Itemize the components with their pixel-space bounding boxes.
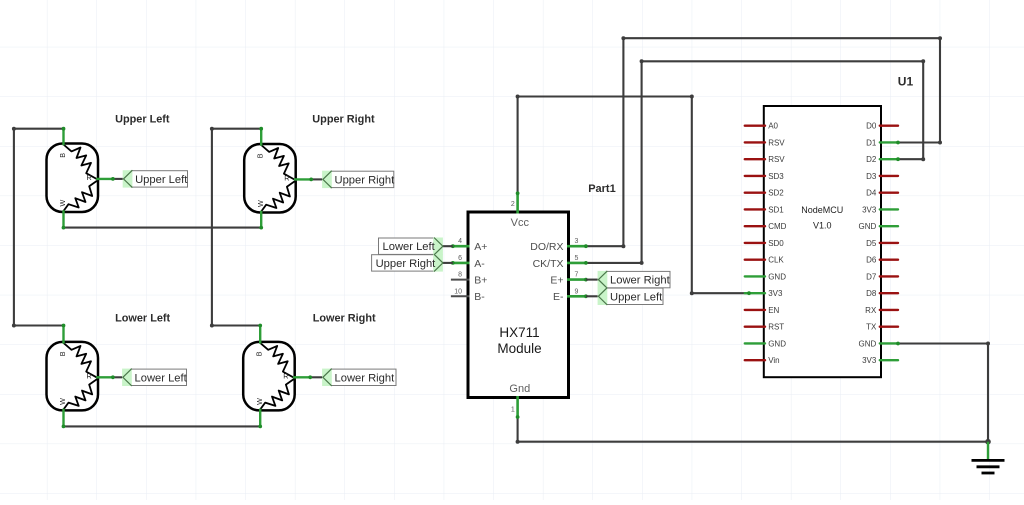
NodeMCU left pin RST xyxy=(745,323,785,332)
svg-text:D5: D5 xyxy=(866,239,877,248)
svg-text:D0: D0 xyxy=(866,122,877,131)
pin R of Lower Left xyxy=(87,372,115,381)
HX711 pin 7 E+ xyxy=(550,272,586,287)
load cell Lower Left body xyxy=(47,342,99,411)
bend dot wire1 top-right xyxy=(938,36,942,40)
HX711 pin 9 E- xyxy=(553,288,586,303)
svg-text:D8: D8 xyxy=(866,289,877,298)
NodeMCU right pin D8 xyxy=(866,289,898,298)
HX711 pin 2 Vcc xyxy=(511,193,530,229)
pin B of Lower Left xyxy=(58,326,67,356)
wire HX711 CK/TX to NodeMCU D2 xyxy=(586,61,923,263)
svg-text:Module: Module xyxy=(497,341,541,356)
svg-text:A+: A+ xyxy=(474,241,487,253)
HX711 pin 3 DO/RX xyxy=(530,238,586,253)
NodeMCU left pin SD2 xyxy=(745,189,785,198)
svg-text:NodeMCU: NodeMCU xyxy=(801,205,843,215)
NodeMCU right pin GND xyxy=(859,222,898,231)
svg-text:D6: D6 xyxy=(866,256,877,265)
green terminal dots xyxy=(62,127,314,429)
HX711 module Part1 body xyxy=(468,212,569,398)
HX711 pin 10 B- xyxy=(451,288,485,303)
svg-text:Upper Right: Upper Right xyxy=(312,114,375,126)
svg-text:R: R xyxy=(283,372,288,381)
svg-text:Gnd: Gnd xyxy=(509,383,530,395)
green terminal dots NodeMCU xyxy=(747,141,900,346)
bend dot Vcc wire top-left xyxy=(516,95,520,99)
NodeMCU left pin CMD xyxy=(745,222,787,231)
wire UL-R to flag xyxy=(113,178,124,180)
svg-text:RST: RST xyxy=(768,323,784,332)
svg-text:Upper Right: Upper Right xyxy=(376,258,437,270)
svg-text:GND: GND xyxy=(859,222,877,231)
svg-text:RSV: RSV xyxy=(768,155,785,164)
pin W of Lower Left xyxy=(58,398,67,426)
svg-text:7: 7 xyxy=(575,272,579,279)
junction bend UL-B corner xyxy=(12,127,16,131)
NodeMCU right pin RX xyxy=(865,306,898,315)
svg-text:B-: B- xyxy=(474,291,485,303)
svg-text:CLK: CLK xyxy=(768,256,784,265)
junction node ground xyxy=(985,439,991,445)
net label flag Lower Right xyxy=(598,271,671,288)
load cell Lower Right body xyxy=(243,342,295,411)
pin B of Upper Right xyxy=(256,129,265,159)
junction bend UR-B corner xyxy=(210,127,214,131)
NodeMCU left pin CLK xyxy=(745,256,785,265)
svg-text:V1.0: V1.0 xyxy=(813,220,832,230)
NodeMCU right pin D0 xyxy=(866,122,898,131)
wire A- flag stub xyxy=(443,262,453,264)
svg-text:SD2: SD2 xyxy=(768,189,784,198)
pin R of Lower Right xyxy=(283,372,311,381)
wire UR-R to flag xyxy=(311,178,323,180)
svg-text:Lower Left: Lower Left xyxy=(383,241,436,253)
bend dot Vcc wire top-right xyxy=(690,95,694,99)
svg-text:Lower Left: Lower Left xyxy=(115,313,170,325)
junction bend LR-B corner xyxy=(210,324,214,328)
svg-text:4: 4 xyxy=(458,238,462,245)
wire UL-B to LL-B xyxy=(14,129,64,326)
wire A+ flag stub xyxy=(443,245,453,247)
bend dot CK/TX junction xyxy=(640,261,644,265)
NodeMCU left pin SD1 xyxy=(745,205,785,214)
svg-text:Lower Right: Lower Right xyxy=(610,275,671,287)
pin W of Upper Left xyxy=(58,200,67,228)
svg-text:A0: A0 xyxy=(768,122,778,131)
svg-text:Part1: Part1 xyxy=(588,183,616,195)
svg-text:E-: E- xyxy=(553,291,564,303)
NodeMCU left pin SD0 xyxy=(745,239,785,248)
svg-text:B: B xyxy=(256,153,265,158)
NodeMCU right pin D3 xyxy=(866,172,898,181)
NodeMCU right pin D2 xyxy=(866,155,898,164)
NodeMCU left pin RSV xyxy=(745,155,786,164)
svg-text:GND: GND xyxy=(768,272,786,281)
HX711 pin 5 CK/TX xyxy=(533,255,586,270)
ground symbol xyxy=(972,442,1005,473)
NodeMCU right pin D5 xyxy=(866,239,898,248)
title Upper Left xyxy=(115,114,170,126)
bend dot DO/RX junction xyxy=(621,244,625,248)
green terminal dots HX711 xyxy=(451,191,588,418)
svg-text:RX: RX xyxy=(865,306,877,315)
svg-text:HX711: HX711 xyxy=(499,325,539,340)
NodeMCU left pin A0 xyxy=(745,122,779,131)
NodeMCU right pin D4 xyxy=(866,189,898,198)
svg-text:3V3: 3V3 xyxy=(862,356,877,365)
pin B of Lower Right xyxy=(255,326,264,356)
svg-text:W: W xyxy=(255,398,264,405)
NodeMCU left pin Vin xyxy=(745,356,780,365)
pin R of Upper Right xyxy=(284,174,312,183)
NodeMCU left pin RSV xyxy=(745,138,786,147)
svg-text:TX: TX xyxy=(866,323,877,332)
svg-text:SD3: SD3 xyxy=(768,172,784,181)
net label flag Upper Left xyxy=(123,170,189,187)
svg-text:A-: A- xyxy=(474,258,485,270)
svg-text:EN: EN xyxy=(768,306,779,315)
bend dot wire1 top-left xyxy=(621,36,625,40)
wire LL-R to flag xyxy=(113,376,123,378)
svg-text:D4: D4 xyxy=(866,189,877,198)
title Lower Right xyxy=(313,313,376,325)
svg-text:D7: D7 xyxy=(866,272,877,281)
bend dot Gnd corner xyxy=(516,440,520,444)
svg-text:Lower Right: Lower Right xyxy=(335,372,396,384)
NodeMCU right pin D7 xyxy=(866,272,898,281)
NodeMCU U1 body xyxy=(764,106,881,377)
svg-text:Lower Left: Lower Left xyxy=(135,372,188,384)
wire NodeMCU GND to ground xyxy=(898,344,988,442)
load cell Upper Left body xyxy=(47,144,99,213)
svg-text:Upper Left: Upper Left xyxy=(610,291,663,303)
title Part1 xyxy=(588,183,616,195)
svg-text:Vin: Vin xyxy=(768,356,779,365)
wire E+ flag stub xyxy=(586,279,599,281)
wire LR-R to flag xyxy=(310,376,323,378)
svg-text:3V3: 3V3 xyxy=(768,289,783,298)
svg-text:GND: GND xyxy=(768,339,786,348)
svg-text:B: B xyxy=(58,153,67,158)
bend dot wire2 top-right xyxy=(921,59,925,63)
net label flag Lower Left xyxy=(122,369,188,386)
svg-text:6: 6 xyxy=(458,255,462,262)
title U1 xyxy=(898,74,914,88)
svg-text:D3: D3 xyxy=(866,172,877,181)
wire HX711 Vcc to NodeMCU 3V3 xyxy=(518,97,749,294)
NodeMCU left pin GND xyxy=(745,272,786,281)
svg-text:W: W xyxy=(256,200,265,207)
title Upper Right xyxy=(312,114,375,126)
svg-text:Upper Right: Upper Right xyxy=(335,174,396,186)
pin B of Upper Left xyxy=(58,128,67,158)
NodeMCU right pin 3V3 xyxy=(862,205,898,214)
wire HX711 DO/RX to NodeMCU D1 xyxy=(586,38,940,246)
wire LL-W to LR-W xyxy=(64,425,261,427)
bend dot Vcc wire bottom xyxy=(690,291,694,295)
svg-text:B: B xyxy=(58,351,67,356)
svg-text:Upper Left: Upper Left xyxy=(135,174,188,186)
svg-text:U1: U1 xyxy=(898,74,914,88)
svg-text:9: 9 xyxy=(575,288,579,295)
svg-text:10: 10 xyxy=(454,288,462,295)
svg-text:Lower Right: Lower Right xyxy=(313,313,376,325)
svg-text:R: R xyxy=(87,372,92,381)
wire UR-B to LR-B xyxy=(212,129,261,326)
NodeMCU left pin GND xyxy=(745,339,786,348)
NodeMCU left pin EN xyxy=(745,306,780,315)
svg-text:CK/TX: CK/TX xyxy=(533,258,564,270)
wire HX711 Gnd to ground xyxy=(518,417,988,442)
net label flag Upper Left xyxy=(598,288,664,305)
wire E- flag stub xyxy=(586,295,599,297)
svg-text:B: B xyxy=(255,351,264,356)
HX711 pin 4 A+ xyxy=(451,238,488,253)
wire UL-W to UR-W xyxy=(64,227,262,229)
svg-text:B+: B+ xyxy=(474,275,487,287)
net label flag Lower Right xyxy=(322,369,396,386)
NodeMCU right pin TX xyxy=(866,323,898,332)
pin R of Upper Left xyxy=(87,173,115,182)
NodeMCU right pin D6 xyxy=(866,256,898,265)
svg-text:RSV: RSV xyxy=(768,138,785,147)
svg-text:SD0: SD0 xyxy=(768,239,784,248)
svg-text:W: W xyxy=(58,200,67,207)
svg-text:GND: GND xyxy=(859,339,877,348)
NodeMCU left pin SD3 xyxy=(745,172,785,181)
load cell Upper Right body xyxy=(244,144,296,213)
svg-text:2: 2 xyxy=(511,201,515,208)
NodeMCU right pin D1 xyxy=(866,138,898,147)
pin W of Upper Right xyxy=(256,200,265,228)
bend dot NodeMCU GND corner xyxy=(986,342,990,346)
svg-text:Upper Left: Upper Left xyxy=(115,114,170,126)
bend dot wire2 at D2 xyxy=(921,157,925,161)
svg-text:Vcc: Vcc xyxy=(511,217,530,229)
NodeMCU left pin 3V3 xyxy=(745,289,783,298)
net label flag Upper Right xyxy=(372,254,443,271)
svg-text:3V3: 3V3 xyxy=(862,205,877,214)
bend dot wire1 at D1 xyxy=(938,141,942,145)
NodeMCU right pin GND xyxy=(859,339,898,348)
HX711 pin 1 Gnd xyxy=(509,383,530,417)
net label flag Lower Left xyxy=(379,238,443,255)
svg-text:D1: D1 xyxy=(866,138,877,147)
net label flag Upper Right xyxy=(322,171,395,188)
HX711 pin 8 B+ xyxy=(451,272,488,287)
svg-text:CMD: CMD xyxy=(768,222,786,231)
svg-text:E+: E+ xyxy=(550,275,563,287)
junction bend LL-B corner xyxy=(12,324,16,328)
svg-text:DO/RX: DO/RX xyxy=(530,241,563,253)
svg-text:R: R xyxy=(284,174,289,183)
NodeMCU right pin 3V3 xyxy=(862,356,898,365)
svg-text:D2: D2 xyxy=(866,155,877,164)
HX711 pin 6 A- xyxy=(451,255,485,270)
pin W of Lower Right xyxy=(255,398,264,426)
svg-text:1: 1 xyxy=(511,407,515,414)
bend dot wire2 top-left xyxy=(640,59,644,63)
svg-text:SD1: SD1 xyxy=(768,205,784,214)
svg-text:W: W xyxy=(58,398,67,405)
title Lower Left xyxy=(115,313,170,325)
svg-text:R: R xyxy=(87,173,92,182)
svg-text:5: 5 xyxy=(575,255,579,262)
svg-text:8: 8 xyxy=(458,272,462,279)
svg-text:3: 3 xyxy=(575,238,579,245)
